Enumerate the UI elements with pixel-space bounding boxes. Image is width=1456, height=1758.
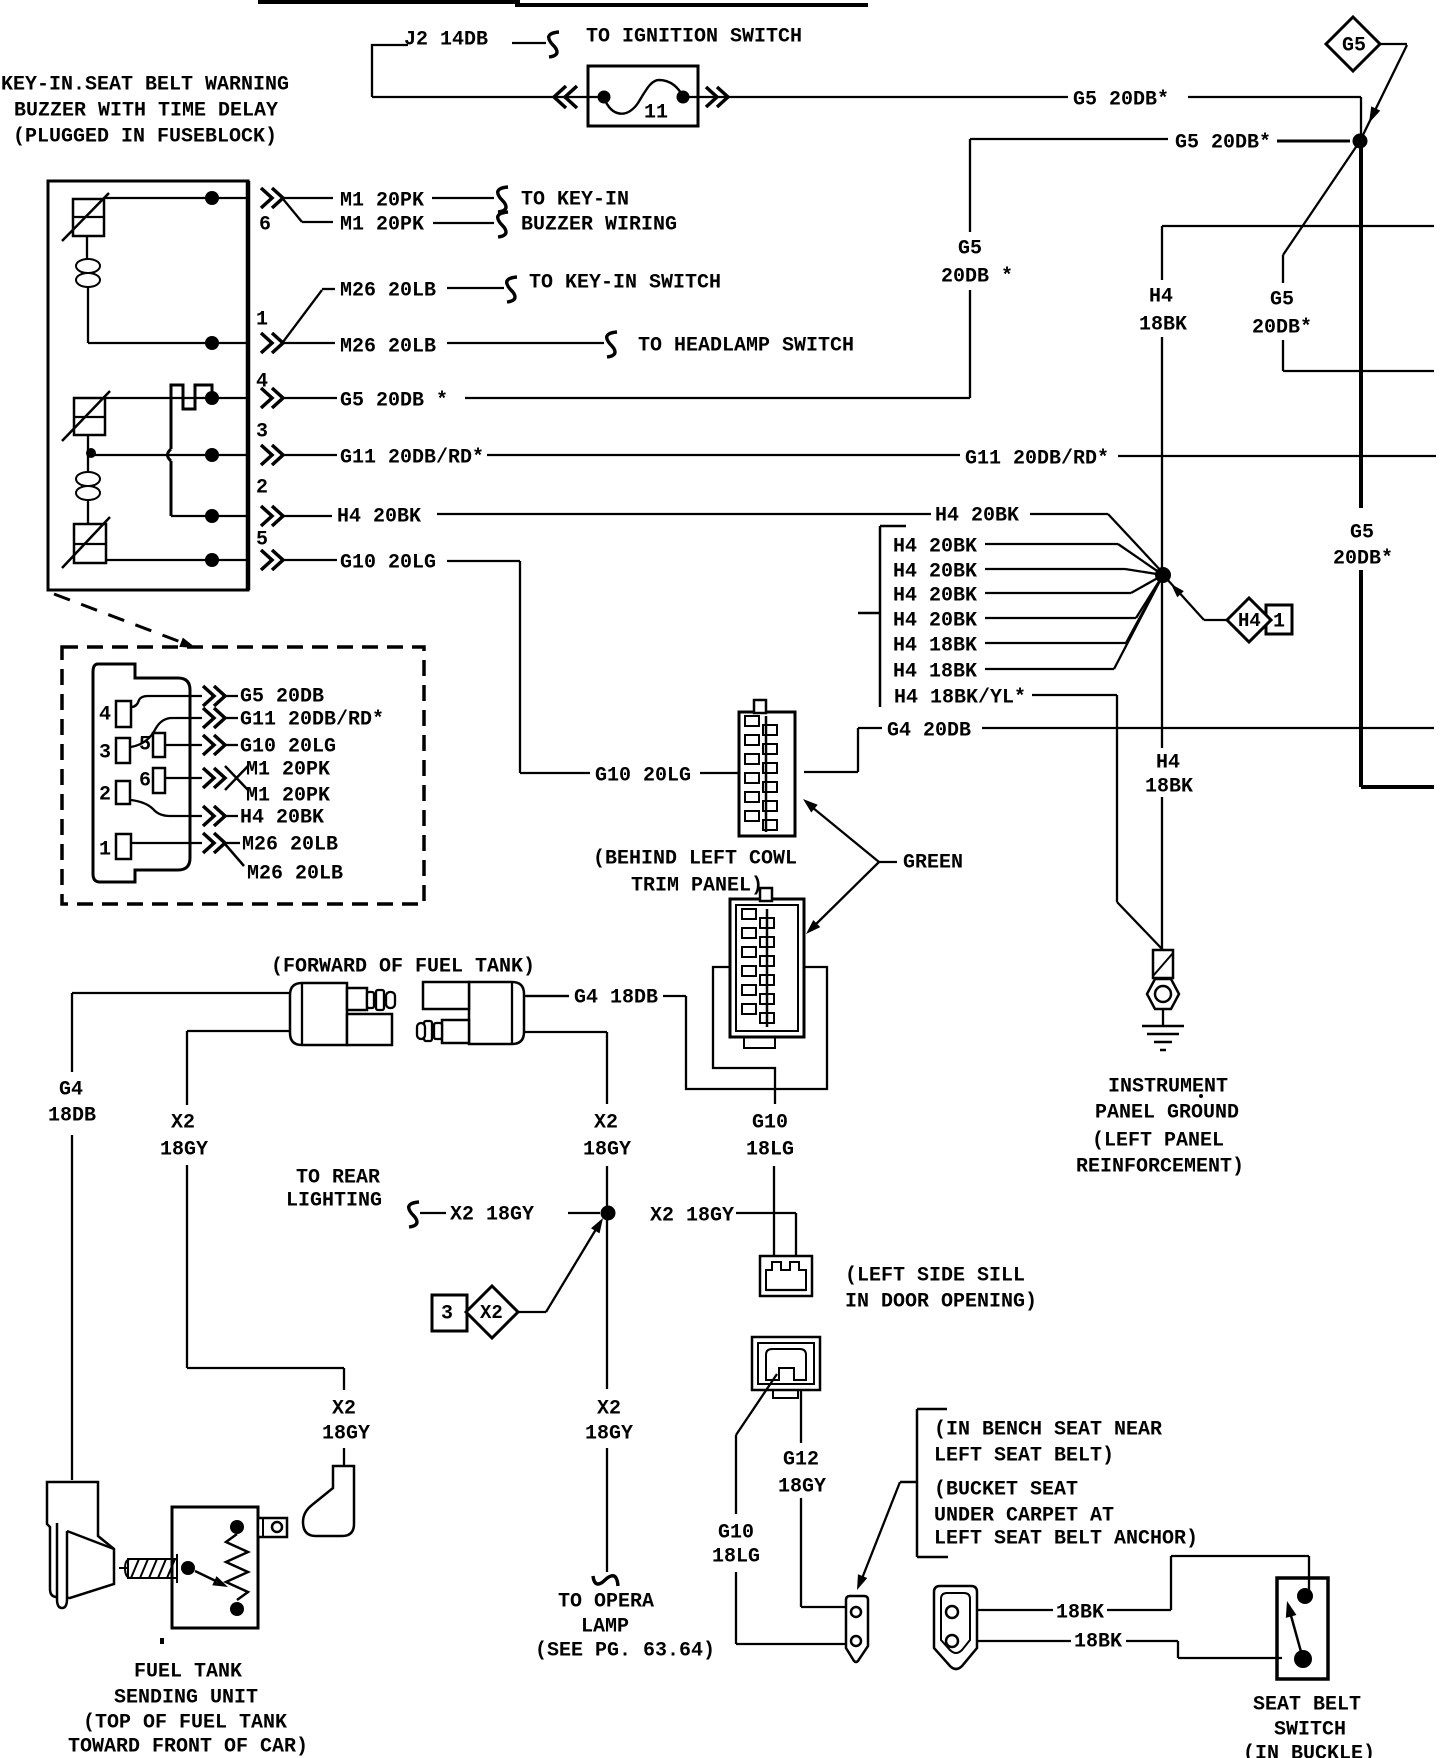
svg-text:18GY: 18GY [778, 1476, 826, 1499]
svg-text:H4 18BK: H4 18BK [893, 635, 977, 658]
svg-text:H4: H4 [1156, 752, 1180, 775]
svg-text:H4 20BK: H4 20BK [893, 536, 977, 559]
svg-text:H4 20BK: H4 20BK [337, 506, 421, 529]
svg-text:18LG: 18LG [712, 1546, 760, 1569]
svg-text:X2: X2 [480, 1302, 503, 1324]
svg-text:SENDING UNIT: SENDING UNIT [114, 1687, 258, 1710]
svg-text:4: 4 [99, 704, 111, 727]
svg-text:1: 1 [256, 309, 268, 332]
svg-text:(BEHIND LEFT COWL: (BEHIND LEFT COWL [593, 848, 797, 871]
svg-text:X2: X2 [171, 1112, 195, 1135]
svg-text:20DB*: 20DB* [1252, 317, 1312, 340]
svg-text:G10: G10 [718, 1522, 754, 1545]
svg-text:18BK: 18BK [1139, 314, 1187, 337]
svg-text:18GY: 18GY [160, 1139, 208, 1162]
svg-text:5: 5 [256, 529, 268, 552]
svg-text:M1 20PK: M1 20PK [246, 759, 330, 782]
svg-text:H4 18BK/YL*: H4 18BK/YL* [894, 687, 1026, 710]
svg-text:X2: X2 [597, 1398, 621, 1421]
svg-text:H4 20BK: H4 20BK [893, 610, 977, 633]
svg-text:SWITCH: SWITCH [1274, 1719, 1346, 1742]
svg-text:G4 20DB: G4 20DB [887, 720, 971, 743]
svg-text:TO KEY-IN SWITCH: TO KEY-IN SWITCH [529, 272, 721, 295]
svg-text:(FORWARD OF FUEL TANK): (FORWARD OF FUEL TANK) [271, 956, 535, 979]
svg-text:(IN BUCKLE): (IN BUCKLE) [1243, 1743, 1375, 1758]
svg-text:18LG: 18LG [746, 1139, 794, 1162]
svg-text:G12: G12 [783, 1449, 819, 1472]
svg-text:M26 20LB: M26 20LB [340, 280, 436, 303]
svg-text:G4: G4 [59, 1079, 83, 1102]
svg-text:G11 20DB/RD*: G11 20DB/RD* [965, 448, 1109, 471]
svg-text:TO IGNITION SWITCH: TO IGNITION SWITCH [586, 26, 802, 49]
svg-text:X2 18GY: X2 18GY [450, 1204, 534, 1227]
svg-text:1: 1 [99, 839, 111, 862]
svg-text:H4: H4 [1238, 610, 1261, 632]
svg-text:G4 18DB: G4 18DB [574, 987, 658, 1010]
svg-text:18BK: 18BK [1056, 1602, 1104, 1625]
svg-text:H4 20BK: H4 20BK [240, 807, 324, 830]
svg-text:20DB*: 20DB* [1333, 548, 1393, 571]
svg-text:(LEFT SIDE SILL: (LEFT SIDE SILL [845, 1265, 1025, 1288]
svg-text:X2: X2 [332, 1398, 356, 1421]
svg-text:INSTRUMENT: INSTRUMENT [1108, 1076, 1228, 1099]
svg-text:18DB: 18DB [48, 1105, 96, 1128]
svg-text:TO HEADLAMP SWITCH: TO HEADLAMP SWITCH [638, 335, 854, 358]
svg-text:18BK: 18BK [1074, 1631, 1122, 1654]
svg-text:(IN BENCH SEAT NEAR: (IN BENCH SEAT NEAR [934, 1419, 1162, 1442]
svg-text:(PLUGGED IN FUSEBLOCK): (PLUGGED IN FUSEBLOCK) [13, 126, 277, 149]
svg-text:(TOP OF FUEL TANK: (TOP OF FUEL TANK [83, 1712, 287, 1735]
svg-text:LEFT SEAT BELT ANCHOR): LEFT SEAT BELT ANCHOR) [934, 1528, 1198, 1551]
svg-text:G5 20DB: G5 20DB [240, 686, 324, 709]
svg-text:6: 6 [139, 770, 151, 793]
svg-text:G5: G5 [1342, 35, 1366, 58]
svg-text:GREEN: GREEN [903, 852, 963, 875]
svg-text:PANEL GROUND: PANEL GROUND [1095, 1102, 1239, 1125]
svg-text:H4 20BK: H4 20BK [893, 561, 977, 584]
svg-text:(BUCKET SEAT: (BUCKET SEAT [934, 1479, 1078, 1502]
svg-text:(LEFT PANEL: (LEFT PANEL [1092, 1130, 1224, 1153]
svg-text:SEAT BELT: SEAT BELT [1253, 1694, 1361, 1717]
svg-text:FUEL TANK: FUEL TANK [134, 1661, 242, 1684]
svg-text:M26 20LB: M26 20LB [247, 863, 343, 886]
svg-text:3: 3 [99, 742, 111, 765]
svg-text:3: 3 [256, 421, 268, 444]
svg-text:M1 20PK: M1 20PK [246, 785, 330, 808]
svg-text:REINFORCEMENT): REINFORCEMENT) [1076, 1156, 1244, 1179]
svg-text:G10 20LG: G10 20LG [240, 736, 336, 759]
svg-text:TOWARD FRONT OF CAR): TOWARD FRONT OF CAR) [68, 1736, 308, 1758]
svg-text:G10 20LG: G10 20LG [340, 552, 436, 575]
svg-text:UNDER CARPET AT: UNDER CARPET AT [934, 1505, 1114, 1528]
svg-text:TO OPERA: TO OPERA [558, 1591, 654, 1614]
svg-text:18BK: 18BK [1145, 776, 1193, 799]
svg-text:IN DOOR OPENING): IN DOOR OPENING) [845, 1291, 1037, 1314]
svg-text:(SEE PG. 63.64): (SEE PG. 63.64) [535, 1640, 715, 1663]
svg-text:X2: X2 [594, 1112, 618, 1135]
svg-text:M26 20LB: M26 20LB [242, 834, 338, 857]
svg-text:1: 1 [1273, 611, 1285, 634]
svg-text:18GY: 18GY [585, 1423, 633, 1446]
svg-text:TO KEY-IN: TO KEY-IN [521, 189, 629, 212]
svg-text:G11 20DB/RD*: G11 20DB/RD* [340, 447, 484, 470]
svg-text:6: 6 [259, 214, 271, 237]
svg-text:TRIM PANEL): TRIM PANEL) [631, 875, 763, 898]
svg-text:18GY: 18GY [583, 1139, 631, 1162]
svg-text:TO REAR: TO REAR [296, 1167, 380, 1190]
svg-text:2: 2 [99, 784, 111, 807]
svg-text:H4 18BK: H4 18BK [893, 661, 977, 684]
svg-text:LAMP: LAMP [581, 1616, 629, 1639]
svg-text:G5 20DB*: G5 20DB* [1175, 132, 1271, 155]
svg-text:3: 3 [441, 1303, 453, 1326]
svg-text:2: 2 [256, 477, 268, 500]
svg-text:M26 20LB: M26 20LB [340, 336, 436, 359]
svg-text:LIGHTING: LIGHTING [286, 1190, 382, 1213]
svg-text:G10 20LG: G10 20LG [595, 765, 691, 788]
svg-text:G5: G5 [958, 238, 982, 261]
svg-text:20DB *: 20DB * [941, 266, 1013, 289]
svg-text:M1 20PK: M1 20PK [340, 190, 424, 213]
svg-text:G10: G10 [752, 1112, 788, 1135]
svg-text:H4: H4 [1149, 286, 1173, 309]
svg-text:11: 11 [644, 102, 668, 125]
svg-text:G5 20DB*: G5 20DB* [1073, 89, 1169, 112]
svg-text:J2 14DB: J2 14DB [404, 29, 488, 52]
svg-text:G5: G5 [1270, 289, 1294, 312]
svg-text:G11 20DB/RD*: G11 20DB/RD* [240, 709, 384, 732]
svg-text:M1 20PK: M1 20PK [340, 214, 424, 237]
svg-text:KEY-IN.SEAT BELT WARNING: KEY-IN.SEAT BELT WARNING [1, 74, 289, 97]
svg-text:LEFT SEAT BELT): LEFT SEAT BELT) [934, 1445, 1114, 1468]
svg-text:X2 18GY: X2 18GY [650, 1205, 734, 1228]
svg-text:BUZZER WITH TIME DELAY: BUZZER WITH TIME DELAY [14, 100, 278, 123]
svg-text:18GY: 18GY [322, 1423, 370, 1446]
svg-text:BUZZER WIRING: BUZZER WIRING [521, 214, 677, 237]
svg-text:G5: G5 [1350, 522, 1374, 545]
svg-text:H4 20BK: H4 20BK [893, 585, 977, 608]
svg-text:H4 20BK: H4 20BK [935, 505, 1019, 528]
svg-text:G5 20DB *: G5 20DB * [340, 390, 448, 413]
